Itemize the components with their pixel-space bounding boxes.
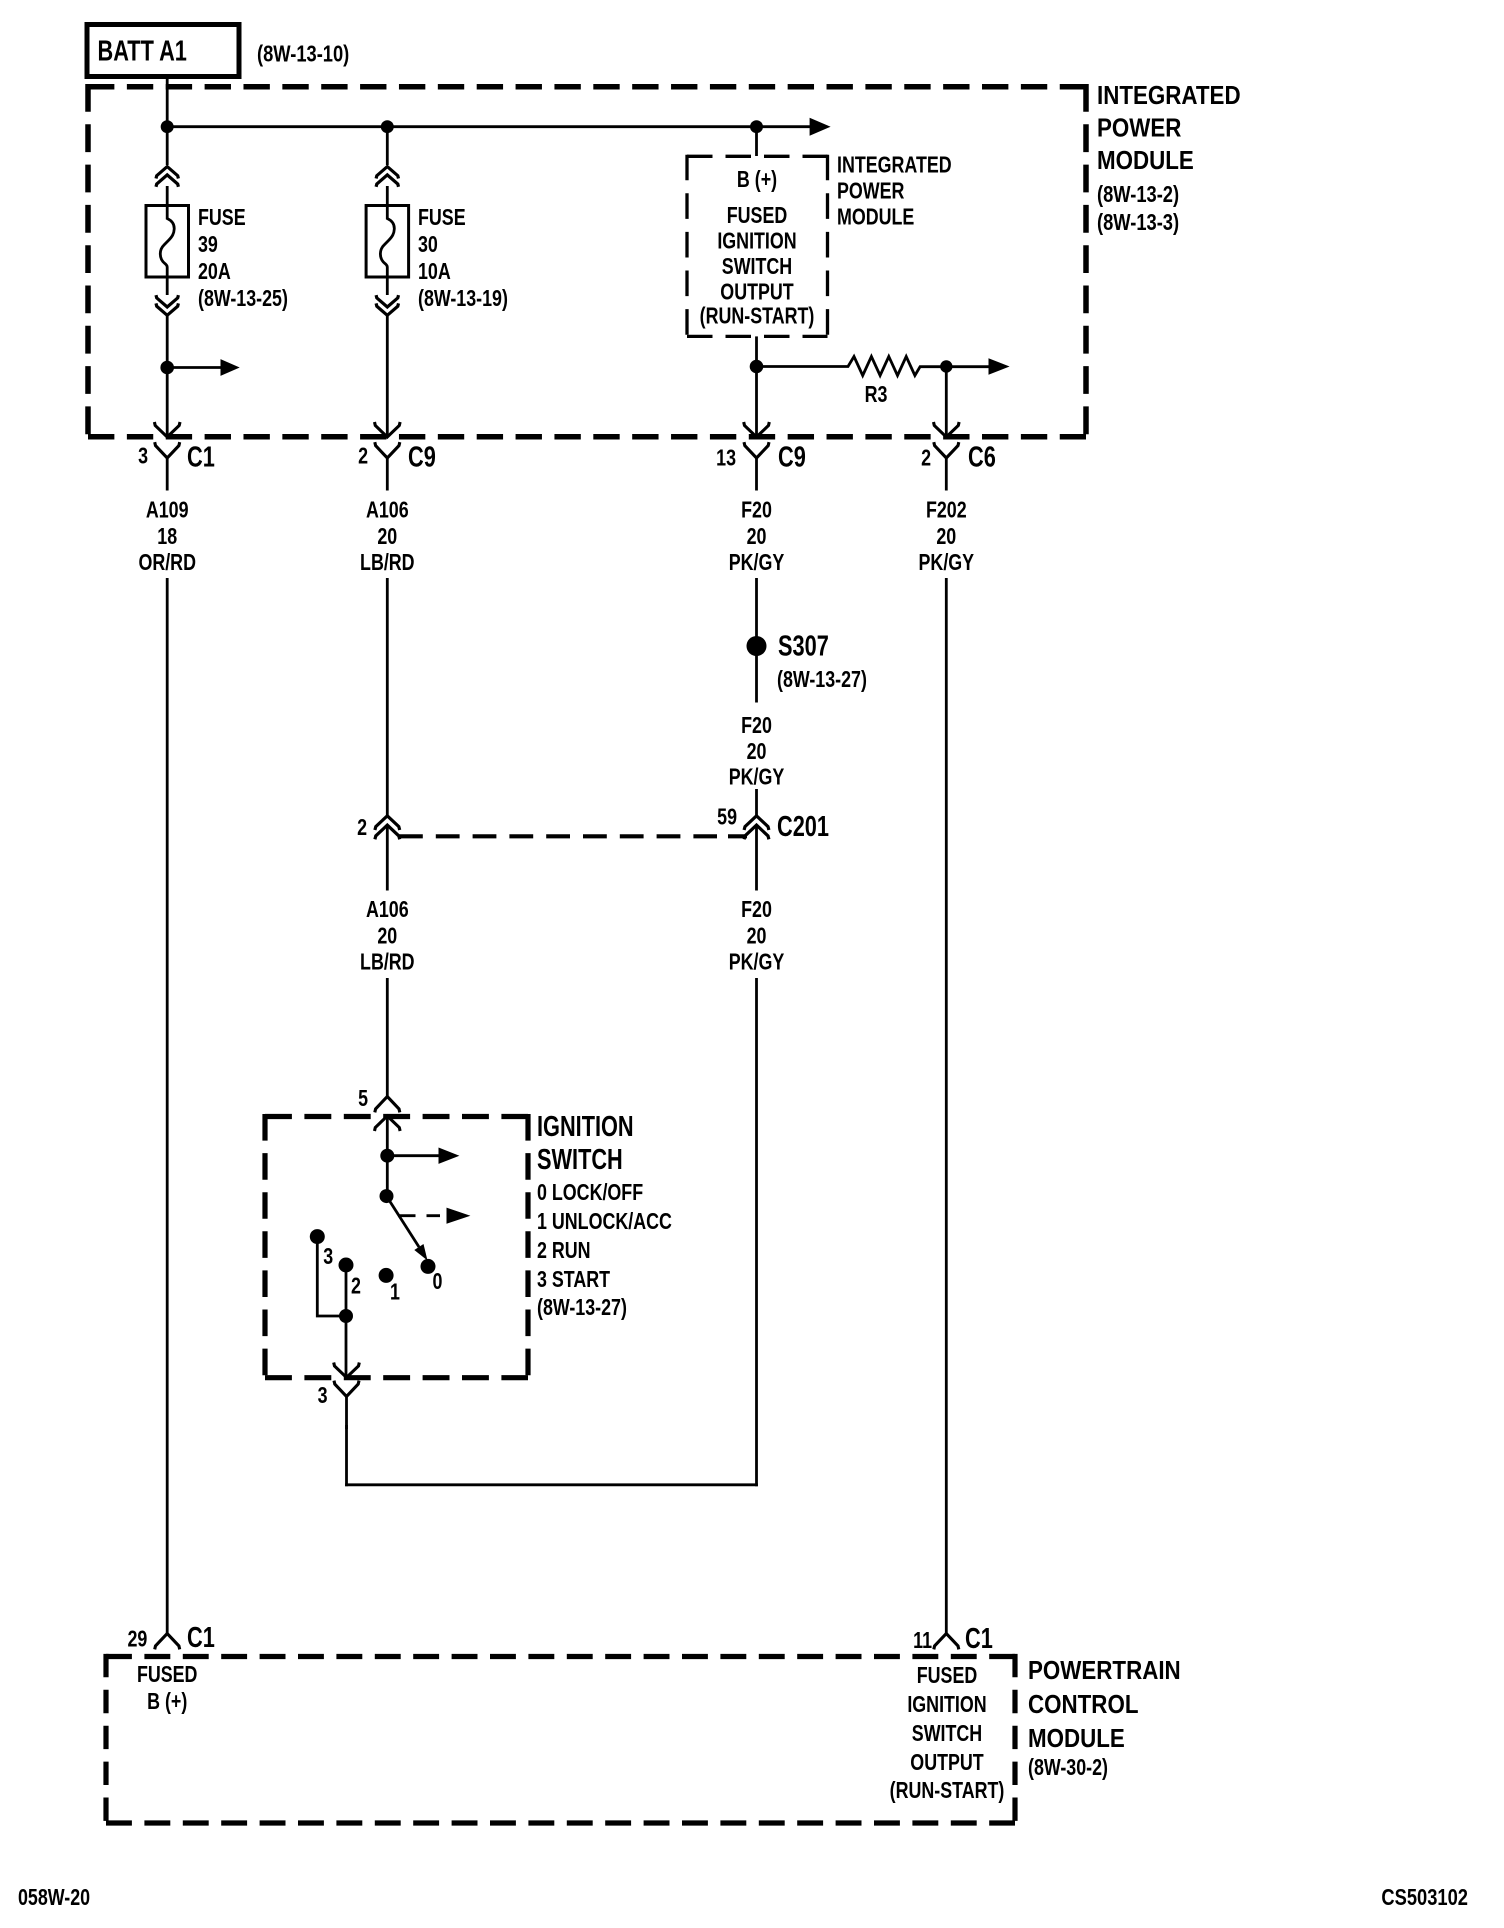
lever pivot node: [380, 1189, 394, 1203]
wire switch output down: [345, 1425, 348, 1486]
connector pin 11 male half: [934, 1634, 959, 1650]
svg-text:C1: C1: [965, 1623, 993, 1655]
wire F20 to splice: [755, 578, 758, 637]
svg-text:10A: 10A: [418, 259, 451, 285]
splice S307: [747, 636, 767, 656]
PCM box right edge: [1012, 1654, 1017, 1826]
wire chevrons to fuse 30: [386, 186, 389, 206]
connector pin 3 female: [334, 1381, 359, 1429]
wire contact 3 to junction: [317, 1237, 346, 1316]
PCM box left edge: [103, 1654, 108, 1826]
inner box left edge: [685, 155, 688, 338]
inner box top edge: [687, 155, 828, 158]
svg-text:S307: S307: [778, 631, 829, 663]
svg-text:(8W-13-27): (8W-13-27): [537, 1295, 627, 1321]
svg-text:POWERTRAIN: POWERTRAIN: [1028, 1656, 1181, 1685]
svg-text:IGNITION: IGNITION: [717, 228, 796, 254]
svg-text:CONTROL: CONTROL: [1028, 1690, 1139, 1719]
chevrons below fuse 30: [376, 295, 398, 307]
wire R3 node down to C9 pin 13: [755, 367, 758, 437]
bus wire with arrow: [167, 125, 810, 128]
svg-text:F20: F20: [741, 713, 772, 739]
svg-text:3: 3: [138, 443, 148, 469]
svg-text:SWITCH: SWITCH: [912, 1721, 982, 1747]
IPM box left edge: [85, 84, 91, 439]
svg-text:(8W-13-2): (8W-13-2): [1097, 182, 1179, 208]
inner box bottom edge: [687, 335, 828, 338]
ignition box bottom edge: [265, 1375, 528, 1380]
svg-text:IGNITION: IGNITION: [907, 1692, 986, 1718]
wire R3 right node down to C6: [945, 367, 948, 437]
contact 1: [379, 1268, 394, 1283]
svg-text:LB/RD: LB/RD: [360, 949, 415, 975]
connector C9 pin 2: [375, 442, 400, 490]
svg-text:R3: R3: [865, 382, 888, 408]
junction node at fuse 30 branch: [381, 120, 394, 133]
svg-text:B (+): B (+): [737, 167, 777, 193]
wire pin5 to pivot: [386, 1117, 389, 1156]
wire switch output horizontal to F20: [345, 1483, 758, 1486]
chevrons below fuse 39: [156, 295, 178, 307]
dashed travel arrow: [398, 1214, 440, 1217]
connector C9 pin 13: [744, 442, 769, 490]
svg-text:30: 30: [418, 232, 438, 258]
wire A106 below C201: [386, 825, 389, 891]
svg-text:BATT A1: BATT A1: [98, 36, 187, 68]
svg-text:SWITCH: SWITCH: [722, 254, 792, 280]
IPM box bottom edge: [88, 434, 1086, 440]
svg-text:B (+): B (+): [147, 1689, 187, 1715]
svg-text:(8W-13-10): (8W-13-10): [257, 41, 349, 67]
svg-text:A106: A106: [366, 897, 409, 923]
svg-text:2: 2: [921, 445, 931, 471]
svg-text:PK/GY: PK/GY: [729, 764, 785, 790]
wire A109 down to PCM: [166, 578, 169, 1634]
svg-text:CS503102: CS503102: [1381, 1885, 1468, 1911]
connector arrow out of switch: [334, 1363, 360, 1378]
junction node fused output tap: [160, 361, 174, 375]
junction node R3 right: [940, 360, 952, 372]
ignition box right edge: [525, 1114, 530, 1380]
ignition box top edge: [265, 1114, 528, 1119]
fuse F39: [146, 205, 189, 278]
connector arrow into C6: [934, 422, 960, 437]
connector arrow into C9 pin 13: [744, 422, 770, 437]
svg-text:PK/GY: PK/GY: [729, 949, 785, 975]
svg-text:(8W-13-27): (8W-13-27): [777, 667, 867, 693]
svg-text:PK/GY: PK/GY: [729, 550, 785, 576]
PCM box top edge: [106, 1654, 1015, 1659]
wire fuse 30 down to IPM edge: [386, 316, 389, 436]
chevrons above fuse 30: [376, 167, 398, 179]
svg-text:FUSED: FUSED: [727, 203, 788, 229]
inner box right edge: [826, 155, 829, 338]
svg-text:FUSE: FUSE: [198, 205, 246, 231]
ignition box left edge: [262, 1114, 267, 1380]
svg-text:MODULE: MODULE: [837, 204, 914, 230]
connector C1 pin 3: [155, 442, 180, 490]
svg-text:3: 3: [323, 1244, 333, 1270]
svg-text:1 UNLOCK/ACC: 1 UNLOCK/ACC: [537, 1209, 672, 1235]
svg-text:20: 20: [377, 923, 397, 949]
svg-text:POWER: POWER: [1097, 114, 1181, 143]
contact 3: [310, 1229, 325, 1244]
svg-text:13: 13: [716, 445, 736, 471]
svg-text:MODULE: MODULE: [1028, 1724, 1125, 1753]
wire A106 down to C201: [386, 578, 389, 815]
tap arrow: [167, 366, 222, 369]
wire F20 to C201: [755, 789, 758, 815]
svg-text:2: 2: [351, 1273, 361, 1299]
svg-text:11: 11: [913, 1628, 932, 1654]
wire bus to B(+) box: [755, 127, 758, 156]
svg-text:(RUN-START): (RUN-START): [700, 303, 815, 329]
svg-text:0 LOCK/OFF: 0 LOCK/OFF: [537, 1180, 643, 1206]
connector arrow into C9: [375, 422, 401, 437]
contact 0: [421, 1259, 436, 1274]
svg-text:1: 1: [390, 1279, 400, 1305]
svg-text:058W-20: 058W-20: [18, 1885, 90, 1911]
svg-text:20: 20: [747, 923, 767, 949]
wire A106 down to ignition switch: [386, 978, 389, 1096]
wire F20 below C201: [755, 825, 758, 891]
contact 2: [339, 1258, 354, 1273]
wire chevrons to fuse 39: [166, 186, 169, 206]
wire fuse 30 to chevrons: [386, 277, 389, 295]
svg-text:39: 39: [198, 232, 218, 258]
battery feed box BATT A1: [87, 25, 239, 77]
wire F20 down to ignition switch output junction: [755, 978, 758, 1486]
svg-text:INTEGRATED: INTEGRATED: [837, 152, 952, 178]
svg-text:18: 18: [157, 524, 177, 550]
svg-text:F202: F202: [926, 497, 967, 523]
connector pin 5 male half: [375, 1097, 400, 1113]
junction node start feed: [339, 1309, 353, 1323]
wire bus to fuse 30: [386, 127, 389, 165]
svg-text:2: 2: [358, 443, 368, 469]
svg-text:C1: C1: [187, 442, 215, 474]
svg-text:20: 20: [936, 524, 956, 550]
svg-text:(RUN-START): (RUN-START): [890, 1778, 1005, 1804]
PCM box bottom edge: [106, 1820, 1015, 1825]
connector C201 pin 2 chevrons: [375, 816, 400, 830]
svg-text:MODULE: MODULE: [1097, 146, 1194, 175]
svg-text:OUTPUT: OUTPUT: [910, 1750, 984, 1776]
svg-text:C9: C9: [408, 442, 436, 474]
wire from BATT A1 into IPM: [166, 77, 169, 127]
svg-text:(8W-13-25): (8W-13-25): [198, 286, 288, 312]
svg-text:OUTPUT: OUTPUT: [720, 279, 794, 305]
svg-text:FUSE: FUSE: [418, 205, 466, 231]
svg-text:PK/GY: PK/GY: [919, 550, 975, 576]
svg-text:3 START: 3 START: [537, 1267, 610, 1293]
svg-text:FUSED: FUSED: [917, 1663, 978, 1689]
svg-text:C9: C9: [778, 442, 806, 474]
connector arrow into C1: [154, 422, 180, 437]
junction node at fuse 39 branch: [161, 120, 174, 133]
svg-text:C201: C201: [777, 811, 829, 843]
svg-text:59: 59: [717, 804, 737, 830]
chevrons above fuse 39: [156, 167, 178, 179]
arrow out of R3 node: [989, 358, 1010, 375]
resistor R3: [757, 357, 990, 376]
wire bus to fuse 39: [166, 127, 169, 165]
svg-text:5: 5: [358, 1086, 368, 1112]
connector C201 pin 59 chevrons: [744, 816, 769, 830]
dashed connector line C201: [399, 834, 717, 838]
svg-text:29: 29: [127, 1626, 147, 1652]
connector C6 pin 2: [934, 442, 959, 490]
junction node at B(+) branch: [750, 120, 763, 133]
svg-text:SWITCH: SWITCH: [537, 1144, 623, 1176]
svg-text:LB/RD: LB/RD: [360, 550, 415, 576]
IPM box right edge: [1083, 84, 1089, 439]
connector pin 5 female arrow: [375, 1116, 401, 1131]
wire F202 down to PCM: [945, 578, 948, 1634]
svg-text:20A: 20A: [198, 259, 231, 285]
svg-text:(8W-13-19): (8W-13-19): [418, 286, 508, 312]
wire splice down: [755, 655, 758, 703]
connector pin 29 male half: [155, 1634, 180, 1650]
wire pivot to lever node: [386, 1156, 389, 1196]
svg-text:POWER: POWER: [837, 178, 904, 204]
svg-text:20: 20: [377, 524, 397, 550]
svg-text:(8W-30-2): (8W-30-2): [1028, 1755, 1108, 1781]
arrow from pivot: [387, 1154, 440, 1157]
IPM box top edge: [88, 84, 1086, 90]
svg-text:3: 3: [318, 1383, 328, 1409]
svg-text:C1: C1: [187, 1622, 215, 1654]
svg-text:2 RUN: 2 RUN: [537, 1238, 591, 1264]
pivot node top: [380, 1149, 394, 1163]
svg-text:OR/RD: OR/RD: [138, 550, 196, 576]
svg-text:A109: A109: [146, 497, 189, 523]
svg-text:C6: C6: [968, 442, 996, 474]
wire fuse 39 to chevrons: [166, 277, 169, 295]
svg-text:IGNITION: IGNITION: [537, 1111, 634, 1143]
junction node R3 left: [750, 360, 764, 374]
svg-text:F20: F20: [741, 897, 772, 923]
switch lever with arrow: [387, 1196, 420, 1247]
svg-text:0: 0: [433, 1269, 443, 1295]
svg-text:A106: A106: [366, 497, 409, 523]
svg-text:(8W-13-3): (8W-13-3): [1097, 210, 1179, 236]
svg-text:F20: F20: [741, 497, 772, 523]
fuse F30: [366, 205, 409, 278]
svg-text:INTEGRATED: INTEGRATED: [1097, 81, 1241, 110]
wire fuse 39 down to IPM edge: [166, 316, 169, 436]
svg-text:20: 20: [747, 524, 767, 550]
svg-text:FUSED: FUSED: [137, 1662, 198, 1688]
svg-text:2: 2: [357, 815, 367, 841]
svg-text:20: 20: [747, 739, 767, 765]
wire contact 2 to box edge: [345, 1265, 348, 1376]
wire B(+) box to R3 node: [755, 336, 758, 367]
